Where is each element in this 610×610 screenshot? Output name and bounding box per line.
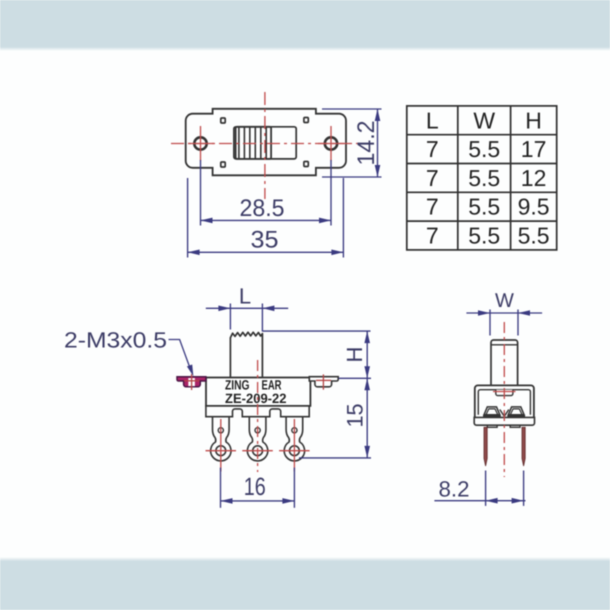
svg-text:7: 7 <box>426 194 439 220</box>
dimension H: arrowheads <box>364 331 370 378</box>
svg-text:L: L <box>239 284 251 309</box>
dimension H: dimension line <box>366 331 368 378</box>
front view: terminal 3 <box>284 418 304 461</box>
side view: pin stubs <box>487 425 497 427</box>
svg-text:H: H <box>342 347 367 363</box>
side view: contact base bars <box>483 415 501 417</box>
dimension L: extension lines <box>230 304 262 332</box>
side view: knob <box>491 340 518 385</box>
dimension 35: arrowheads <box>188 250 344 256</box>
front view: left mounting ear (highlighted M3 screw boss) <box>177 377 206 387</box>
top view: knurled slider block <box>236 127 272 159</box>
side view: right pin <box>522 427 525 466</box>
front view: right mounting ear <box>309 377 338 387</box>
bottom blue band <box>0 557 610 610</box>
top view: rivet square bottom-right <box>304 162 308 167</box>
table: header row L W H <box>426 107 550 248</box>
front view: bottom flange with notches <box>206 406 309 417</box>
svg-text:35: 35 <box>251 227 279 254</box>
svg-text:12: 12 <box>521 165 547 191</box>
svg-text:17: 17 <box>521 136 547 162</box>
side view: vertical centerline <box>503 322 505 477</box>
table: grid <box>407 106 557 250</box>
side view: body inner rim <box>478 390 530 415</box>
dimension 14.2: arrowheads <box>375 109 381 177</box>
dimension 8.2: extension lines <box>486 471 524 506</box>
top view: right mounting hole <box>325 137 337 149</box>
svg-text:16: 16 <box>244 473 266 501</box>
front view: terminal 2 crosshair <box>242 450 272 452</box>
dimension 15: bottom extension line <box>299 457 371 459</box>
dimension 35: extension lines <box>188 178 344 258</box>
svg-text:5.5: 5.5 <box>468 223 500 249</box>
side view: body outer <box>475 385 534 417</box>
top view: left hole vertical crosshair <box>200 126 202 161</box>
side view: bottom band <box>474 417 534 425</box>
svg-text:L: L <box>426 107 439 133</box>
svg-text:W: W <box>495 290 514 312</box>
front view: brand text ZING EAR <box>225 378 287 406</box>
front view: body <box>206 378 310 406</box>
top view: knurl lines <box>239 127 266 158</box>
side view: center V groove <box>500 410 509 417</box>
dimension W: extension lines <box>490 310 518 336</box>
svg-text:14.2: 14.2 <box>353 121 380 166</box>
dimension 35: dimension line <box>188 251 344 253</box>
dimension 16: dimension line <box>221 500 295 502</box>
svg-text:W: W <box>473 107 495 133</box>
top view: left mounting hole <box>194 137 206 149</box>
svg-text:5.5: 5.5 <box>468 136 500 162</box>
svg-text:9.5: 9.5 <box>518 194 550 220</box>
top view: rivet square top-left <box>221 118 225 123</box>
svg-text:ZE-209-22: ZE-209-22 <box>225 391 287 406</box>
front view: terminal 2 <box>247 418 267 461</box>
top view: rivet square top-right <box>304 118 308 123</box>
dimension 16: arrowheads <box>221 498 295 504</box>
svg-text:7: 7 <box>426 165 439 191</box>
front view: knob with knurled top <box>230 332 262 377</box>
dimension 15: arrowheads <box>364 378 370 458</box>
svg-text:15: 15 <box>343 404 368 428</box>
svg-text:28.5: 28.5 <box>240 195 285 222</box>
svg-text:8.2: 8.2 <box>439 477 470 502</box>
side view: left pin <box>484 427 487 466</box>
top view: rivet square bottom-left <box>221 162 225 167</box>
svg-text:7: 7 <box>426 223 439 249</box>
dimension 8.2: dimension line <box>434 500 525 502</box>
front view: terminal 1 <box>211 418 231 461</box>
side view: right contact trapezoid <box>508 407 524 415</box>
front view: left ear crosshair <box>191 374 193 390</box>
front view: central centerline <box>257 360 259 472</box>
dimension L: dimension line <box>206 307 288 309</box>
side view: top slot notch <box>496 390 513 396</box>
front view: terminal 1 centerline <box>220 419 222 472</box>
top blue band <box>0 0 610 51</box>
dimension 14.2: extension lines <box>322 109 382 177</box>
dimension 16: extension lines <box>221 468 295 508</box>
top view: horizontal centerline <box>171 143 360 145</box>
dimension 8.2: arrowheads <box>486 498 524 504</box>
dimension W: arrowheads <box>478 310 530 316</box>
svg-text:5.5: 5.5 <box>468 194 500 220</box>
top view: slider slot <box>234 127 296 159</box>
top view: left hole horizontal crosshair segment <box>188 143 214 145</box>
dimension 28.5: arrowheads <box>201 218 332 224</box>
svg-text:5.5: 5.5 <box>518 223 550 249</box>
svg-text:5.5: 5.5 <box>468 165 500 191</box>
side view: left contact trapezoid <box>484 407 500 415</box>
svg-text:H: H <box>525 107 542 133</box>
top view: right hole horizontal crosshair segment <box>318 143 344 145</box>
dimension H: extension lines <box>262 331 371 378</box>
svg-text:7: 7 <box>426 136 439 162</box>
svg-text:2-M3x0.5: 2-M3x0.5 <box>64 328 167 353</box>
top view: switch outer profile <box>186 109 346 176</box>
leader note 2-M3x0.5: leader line <box>169 340 191 369</box>
leader note 2-M3x0.5: arrowhead <box>187 365 194 377</box>
top view: right hole vertical crosshair <box>330 126 332 161</box>
dimension W: dimension line <box>466 312 542 314</box>
front view: terminal 3 centerline <box>293 419 295 472</box>
dimension 28.5: extension lines <box>201 160 332 226</box>
dimension 15: dimension line <box>366 378 368 458</box>
side view: ear hole crosshair <box>493 391 516 393</box>
dimension L: arrowheads <box>218 306 274 312</box>
top view: vertical centerline <box>264 92 266 199</box>
dimension 14.2: dimension line <box>377 109 379 177</box>
dimension 28.5: dimension line <box>201 219 332 221</box>
front view: right ear crosshair <box>322 374 324 389</box>
side view: knob chamfer line <box>491 344 518 346</box>
